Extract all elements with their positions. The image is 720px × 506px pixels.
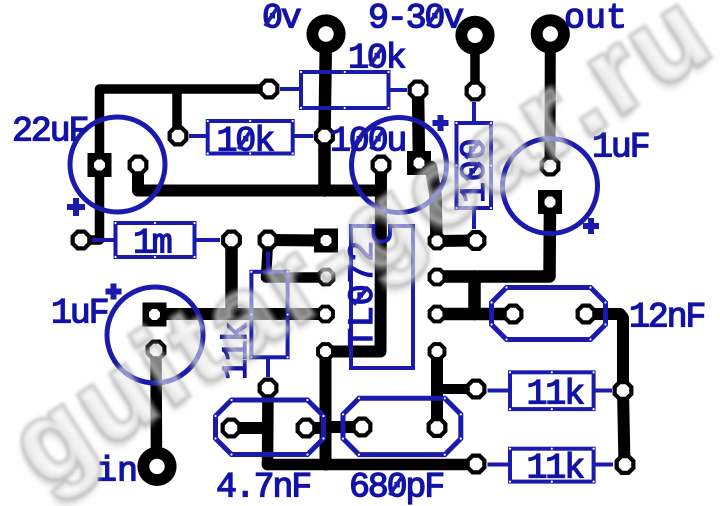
pad 11k-v top bbox=[258, 230, 279, 251]
pad 1uF-right minus square bbox=[538, 190, 562, 214]
pad 100 bottom bbox=[466, 230, 487, 251]
pad 1uF-left bottom bbox=[146, 340, 167, 361]
pad 1uF-left plus square bbox=[143, 303, 167, 327]
svg-text:22uF: 22uF bbox=[12, 112, 87, 152]
pad 9-30v bbox=[455, 16, 494, 55]
pad IC pin R4 bbox=[428, 342, 447, 361]
capacitor 4.7nF octagon bbox=[216, 400, 324, 455]
resistor 10k top outline bbox=[301, 72, 389, 108]
resistor 1m outline bbox=[116, 223, 195, 257]
capacitor 1uF left circle bbox=[107, 287, 203, 383]
pad 10k-1 right bbox=[408, 80, 429, 101]
plus mark 1uF right bbox=[583, 218, 599, 234]
capacitor 1uF right circle bbox=[503, 139, 598, 234]
svg-text:9-30v: 9-30v bbox=[368, 0, 463, 39]
resistor 11k-2 outline bbox=[510, 449, 594, 482]
wire ground horizontal bbox=[138, 165, 381, 191]
svg-text:11k: 11k bbox=[527, 449, 585, 489]
plus mark 1uF left bbox=[106, 284, 122, 300]
pad 9-30v small bbox=[465, 81, 486, 102]
svg-text:11k: 11k bbox=[527, 375, 585, 415]
wire 1m right pad down to signal trace bbox=[225, 240, 238, 314]
wire bottom bus to 11k-2 left pad bbox=[268, 459, 477, 471]
pad IC pin L1 square bbox=[314, 229, 338, 253]
capacitor 100u circle bbox=[352, 118, 447, 213]
wire 11k-v bottom pad down to bottom bus bbox=[262, 388, 274, 465]
pad 1uF-right top bbox=[540, 156, 561, 177]
pad 4.7nF left bbox=[221, 418, 242, 439]
wire R1 to 100 resistor bottom pad bbox=[437, 235, 476, 248]
pad out bbox=[531, 14, 570, 53]
wire 0v vertical bbox=[325, 34, 327, 191]
wire 1uF minus pad to IC pin R2 bbox=[437, 202, 550, 277]
wire T branch R2 to R3 row bbox=[468, 277, 481, 315]
wire 9-30v pad to resistor 100 bbox=[470, 35, 480, 91]
wire R4 down to 680pF right pad bbox=[431, 352, 443, 428]
svg-text:12nF: 12nF bbox=[629, 298, 704, 338]
decorative vertex dots on silkscreen outlines bbox=[114, 71, 606, 483]
pad 10k-1 left bbox=[259, 79, 280, 100]
pad 22uF plus square bbox=[88, 153, 112, 177]
wire branch to 4.7nF left pad bbox=[231, 422, 268, 434]
wire R3 to 12nF left pad bbox=[437, 308, 513, 321]
pad 12nF left bbox=[503, 304, 524, 325]
resistor 11k vertical outline bbox=[251, 272, 287, 358]
wire 10k-1 right pad to 100u plus pad bbox=[418, 90, 419, 163]
wire 4.7nF right pad stub bbox=[306, 422, 326, 434]
pad in bbox=[137, 447, 176, 486]
svg-text:1uF: 1uF bbox=[51, 294, 108, 334]
pad 4.7nF right bbox=[296, 418, 317, 439]
wire branch to 10k-2 left pad bbox=[172, 91, 182, 136]
resistor 10k second outline bbox=[208, 121, 293, 154]
resistor 11k-1 outline bbox=[510, 372, 594, 409]
pad 11k-1 left bbox=[466, 379, 487, 400]
pad 22uF minus bbox=[128, 155, 149, 176]
capacitor 680pF octagon bbox=[343, 398, 461, 454]
resistor 100 outline vertical bbox=[457, 123, 492, 208]
zero slashes (Eagle font style) bbox=[238, 7, 480, 495]
wire ground-bias bus top-left: 1m left pad to 10k-1 left pad bbox=[81, 89, 269, 240]
wire 1uF-left plus pad to IC pin L3 bbox=[155, 308, 326, 320]
pad IC pin R3 bbox=[428, 305, 447, 324]
pad 680pF right bbox=[427, 417, 448, 438]
capacitor 22uF circle bbox=[70, 117, 165, 212]
pad 100u minus bbox=[371, 155, 392, 176]
pad IC pin L2 bbox=[317, 268, 336, 287]
wire 100u plus pad down to IC pin R1 bbox=[431, 167, 437, 241]
pad 100u plus square bbox=[407, 151, 431, 175]
pad IC pin R2 bbox=[428, 268, 447, 287]
pad 0v bbox=[306, 14, 345, 53]
svg-text:1m: 1m bbox=[133, 224, 172, 264]
pad 680pF left bbox=[352, 417, 373, 438]
wire out pad down to 1uF top pad bbox=[545, 34, 556, 166]
wire 1uF-left bottom pad to in pad bbox=[150, 350, 162, 466]
pad 10k-2 left bbox=[168, 126, 189, 147]
pad IC pin L3 bbox=[316, 305, 335, 324]
wire 100u minus pad through IC notch to pin 4 bbox=[326, 165, 382, 352]
pad 11k-v bottom bbox=[258, 378, 279, 399]
svg-text:4.7nF: 4.7nF bbox=[216, 468, 310, 506]
plus mark 22uF bbox=[67, 198, 85, 216]
pad 11k-1 right bbox=[613, 380, 634, 401]
pad 11k-2 left bbox=[466, 454, 487, 475]
wire stub to 680pF left pad bbox=[326, 421, 363, 433]
plus mark 100u bbox=[433, 115, 449, 131]
pad 1m left bbox=[71, 230, 92, 251]
pad 10k-2 right bbox=[314, 126, 335, 147]
capacitor 12nF octagon bbox=[492, 288, 606, 340]
wire 11k-v top pad to IC pin L2 bbox=[266, 242, 326, 278]
wire 12nF right pad down to 11k pads bbox=[586, 314, 625, 465]
pad 12nF right bbox=[576, 304, 597, 325]
wire IC pin L4 down to bottom bus bbox=[320, 352, 332, 465]
wire 11k-v top pad to IC pin L1 bbox=[268, 234, 326, 247]
pad IC pin R1 bbox=[428, 232, 447, 251]
pad IC pin L4 bbox=[316, 342, 335, 361]
pad 1m right bbox=[221, 230, 242, 251]
op-amp TL072 outline with notch bbox=[351, 226, 413, 368]
pad 11k-2 right bbox=[615, 454, 636, 475]
wire branch to 11k-1 left pad bbox=[437, 384, 476, 394]
